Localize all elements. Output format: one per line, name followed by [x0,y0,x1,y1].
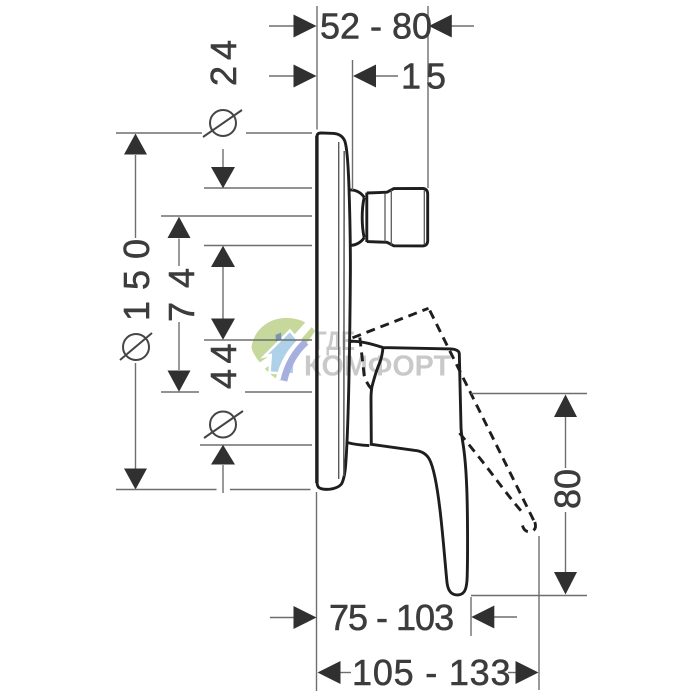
escutcheon plate outline [317,133,351,489]
knob neck [350,190,365,246]
handle hub bottom edge [348,443,370,446]
svg-text:24: 24 [203,34,244,86]
lever handle (solid position) [348,341,468,595]
svg-text:52 - 80: 52 - 80 [320,6,432,47]
dimension 80 (handle length) [471,394,587,596]
watermark logo house [264,331,301,375]
svg-text:150: 150 [116,228,157,321]
svg-text:44: 44 [203,338,244,389]
watermark logo chimney accent [276,333,282,342]
svg-text:74: 74 [161,254,202,322]
dimension 105-133 (bottom) [318,536,540,690]
dimension 52-80 (top) [269,6,474,188]
dimension O 150 (plate diameter) [116,134,311,490]
lever handle (raised position, dashed) [353,308,536,532]
knob body [367,188,428,246]
dimension 15 [269,60,398,190]
svg-text:80: 80 [547,469,588,509]
watermark logo swoosh white gap [257,318,316,370]
watermark logo leaf [252,318,452,383]
watermark logo check stroke [281,342,304,381]
dimension 74 [161,216,312,392]
label O44 [203,338,244,438]
dimension O 24 (knob diameter) [116,133,312,319]
dimension 75-103 (bottom) [270,492,517,691]
label O150 [116,228,157,360]
svg-text:105 - 133: 105 - 133 [352,652,511,693]
label O24 [203,34,244,137]
plate rim contour lines [338,142,340,479]
svg-text:15: 15 [401,56,451,97]
dimension O 44 (hub) [200,319,312,494]
svg-text:75 - 103: 75 - 103 [329,597,453,638]
